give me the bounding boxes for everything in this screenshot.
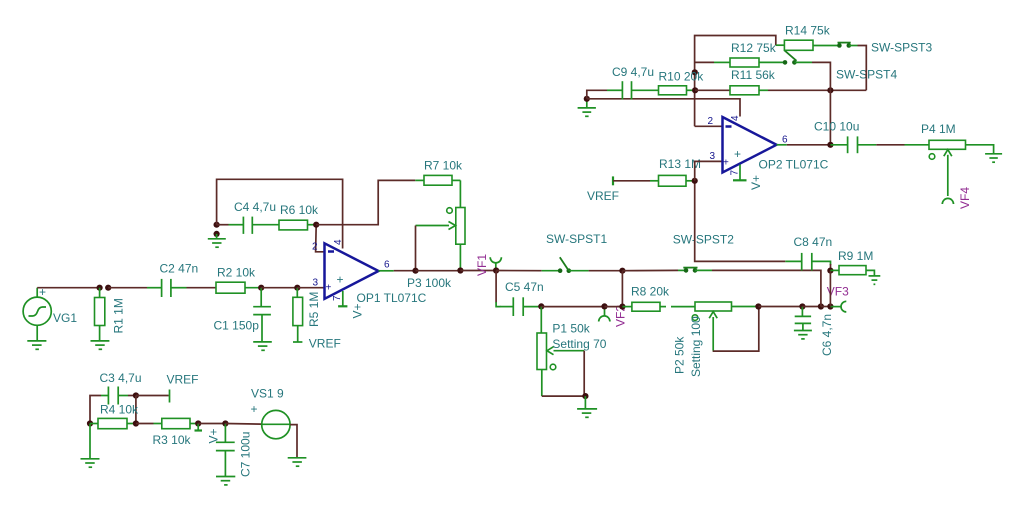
capacitor C7 — [216, 424, 235, 477]
node dot C7 top — [222, 420, 228, 426]
switch SW-SPST1 — [542, 257, 589, 273]
op-amp OP2 — [723, 117, 777, 173]
svg-text:3: 3 — [710, 151, 716, 162]
pin7 stub and V+ jack OP2 — [733, 165, 747, 181]
svg-text:C9 4,7u: C9 4,7u — [612, 65, 654, 79]
resistor R1 — [95, 288, 105, 341]
wire OP2 output to C10 node — [787, 144, 831, 146]
wire VG1 to R1 node — [37, 287, 99, 289]
voltage pin VF2 — [599, 307, 610, 322]
switch SW-SPST2 — [678, 268, 712, 273]
wire C8 down to R9 node — [830, 264, 832, 271]
wire VREF node down to R4 node — [135, 396, 137, 424]
capacitor C9 — [607, 81, 659, 99]
wire R6 node to R7 — [316, 180, 415, 224]
wire C2 to R2 — [187, 287, 217, 289]
wire C6 node to SW2-drop node — [802, 306, 821, 308]
svg-text:Setting 70: Setting 70 — [552, 337, 606, 351]
node dot R4 left — [87, 420, 93, 426]
wire R11 node down to output row — [829, 90, 831, 145]
svg-text:R9 1M: R9 1M — [838, 249, 873, 263]
node dot P3 wiper — [412, 268, 418, 274]
wire R3 node to C7 node — [198, 423, 225, 425]
wire SW3 down to R11 row — [858, 46, 867, 91]
wire P3 node to VF1 node — [460, 270, 496, 272]
node dot VF3 — [827, 303, 833, 309]
svg-text:C3 4,7u: C3 4,7u — [100, 371, 142, 385]
capacitor C10 — [830, 136, 876, 153]
svg-text:P3 100k: P3 100k — [407, 276, 452, 290]
wire node to SW2 — [622, 269, 678, 271]
generator VG1 — [23, 288, 51, 341]
wire R12 left lead — [695, 61, 714, 63]
ground below R4 left — [81, 424, 100, 468]
resistor R14 — [776, 40, 840, 50]
resistor R11 — [730, 86, 768, 95]
potentiometer P2 — [692, 302, 758, 351]
wire VF1 node to SW1 — [496, 270, 542, 272]
wire R5 node to OP1 pin3 — [297, 287, 324, 289]
wire node down to R8 row — [621, 271, 623, 307]
switch SW-SPST3 — [837, 43, 857, 48]
potentiometer P1 — [537, 306, 584, 396]
svg-text:C5 47n: C5 47n — [505, 280, 544, 294]
node dot VREF branch — [133, 392, 139, 398]
node dot P1 top — [538, 303, 544, 309]
wire SW4 to R11 row — [812, 62, 830, 90]
wire R9 node down to VF3 node — [829, 271, 831, 307]
svg-text:R14 75k: R14 75k — [785, 24, 831, 38]
wire VF1 node down to C5 — [495, 271, 497, 303]
svg-text:C6 4,7n: C6 4,7n — [820, 314, 834, 356]
svg-text:R7 10k: R7 10k — [424, 159, 463, 173]
source VS1 — [262, 410, 290, 438]
svg-text:SW-SPST3: SW-SPST3 — [871, 41, 932, 55]
node dot SW2 drop — [818, 303, 824, 309]
ground below R1 — [91, 341, 110, 349]
resistor R9 — [830, 266, 874, 276]
wire R8 to P2 lead — [671, 306, 695, 308]
potentiometer P4 — [905, 140, 994, 196]
wire to VF3 node — [821, 306, 831, 308]
resistor R12 — [714, 58, 785, 67]
ground below C4 node — [208, 234, 226, 247]
wire P2 wiper loop — [713, 307, 759, 352]
node dot R5 top — [294, 285, 300, 291]
svg-text:VG1: VG1 — [53, 311, 77, 325]
ground below VS1 — [288, 458, 307, 466]
voltage pin VF3 — [830, 301, 846, 312]
svg-text:+: + — [734, 147, 741, 161]
node dot VF2 — [601, 303, 607, 309]
node dot P3 bottom — [457, 267, 463, 273]
capacitor C6 — [795, 307, 811, 331]
wire C3 right to VREF node — [128, 395, 136, 397]
svg-text:SW-SPST1: SW-SPST1 — [546, 232, 607, 246]
wire C10 to P4 — [876, 144, 904, 146]
svg-text:+: + — [326, 283, 332, 294]
resistor R4 — [90, 418, 136, 428]
potentiometer P3 — [416, 180, 466, 270]
svg-text:P4 1M: P4 1M — [921, 122, 956, 136]
svg-text:6: 6 — [384, 260, 390, 271]
svg-text:R1 1M: R1 1M — [112, 298, 126, 333]
OP2 output lead — [777, 144, 787, 146]
pin7 stub and V+ jack OP1 — [338, 291, 347, 306]
capacitor C5 — [500, 297, 541, 316]
wire SW2 to drop — [712, 270, 821, 306]
svg-text:P2 50k: P2 50k — [673, 336, 687, 374]
svg-text:6: 6 — [782, 135, 788, 146]
wire C1 node to R5 node — [261, 287, 297, 289]
node dot feedback C4 left upper — [214, 222, 220, 228]
node dot C6 top — [799, 303, 805, 309]
svg-text:OP1 TL071C: OP1 TL071C — [357, 291, 427, 305]
node dot R13 right — [692, 178, 698, 184]
svg-text:OP2 TL071C: OP2 TL071C — [759, 158, 829, 172]
terminal VREF at R13 — [612, 176, 614, 185]
wire C4 left lead — [217, 224, 229, 226]
svg-text:VREF: VREF — [309, 337, 341, 351]
capacitor C2 — [147, 279, 187, 297]
main vertical feedback wire OP2 — [695, 36, 776, 127]
node dot P2 right — [755, 303, 761, 309]
wire C3 left down to R4 — [90, 396, 101, 424]
voltage pin VF1 — [490, 257, 501, 270]
node dot R6 right — [313, 222, 319, 228]
capacitor C4 — [229, 217, 280, 234]
node dot C1 top — [258, 285, 264, 291]
wire P2 node to C6 node — [758, 306, 802, 308]
svg-text:4: 4 — [730, 115, 741, 121]
svg-text:VS1 9: VS1 9 — [251, 387, 284, 401]
svg-text:V+: V+ — [207, 428, 221, 443]
wire P1 node to VF2 node — [541, 306, 604, 308]
resistor R6 — [279, 220, 316, 230]
svg-text:C2 47n: C2 47n — [160, 262, 199, 276]
svg-text:7: 7 — [730, 170, 741, 176]
ground below P1 — [577, 396, 597, 417]
svg-text:R12 75k: R12 75k — [731, 41, 777, 55]
svg-text:C8 47n: C8 47n — [794, 235, 833, 249]
wire R10 node to R11 — [695, 89, 730, 91]
wire R13 node up to pin3 — [695, 161, 723, 180]
switch SW-SPST4 — [783, 51, 812, 65]
node dot R9 left — [827, 268, 833, 274]
svg-text:4: 4 — [333, 239, 344, 245]
svg-text:R4 10k: R4 10k — [100, 403, 139, 417]
wire P1 wiper down — [583, 351, 585, 396]
wire pin2 OP2 — [695, 125, 723, 127]
resistor R13 — [650, 175, 695, 186]
OP1 output lead — [379, 270, 394, 272]
svg-text:2: 2 — [708, 116, 714, 127]
svg-text:R2 10k: R2 10k — [217, 266, 256, 280]
resistor R8 — [622, 302, 666, 311]
node dot P1 ground — [582, 393, 588, 399]
svg-text:VREF: VREF — [167, 373, 199, 387]
wire node to C2 — [108, 287, 147, 289]
node dot C10 left — [827, 142, 833, 148]
node dot R8 row — [619, 304, 625, 310]
node dot R1 top — [97, 285, 103, 291]
wire SW1 to SW2 node — [589, 270, 623, 272]
wire node to VREF terminal — [136, 395, 169, 397]
svg-text:C4 4,7u: C4 4,7u — [234, 200, 276, 214]
V+ jack at R3 node — [195, 424, 203, 431]
svg-text:2: 2 — [312, 242, 318, 253]
svg-text:3: 3 — [313, 278, 319, 289]
svg-text:+: + — [251, 402, 258, 416]
wire R4 node to R3 — [136, 423, 154, 425]
svg-text:R5 1M: R5 1M — [307, 292, 321, 327]
voltage pin VF4 — [942, 198, 953, 204]
svg-text:+: + — [337, 273, 344, 287]
svg-text:V+: V+ — [749, 175, 763, 190]
node dot R11 row — [827, 87, 833, 93]
svg-text:R10 20k: R10 20k — [659, 70, 705, 84]
svg-text:VREF: VREF — [587, 189, 619, 203]
terminal VREF lower-left — [169, 390, 171, 403]
node dot R3 right — [195, 420, 201, 426]
resistor R10 — [659, 86, 696, 95]
ground below R9 — [869, 276, 881, 284]
node dot VF1 — [493, 267, 499, 273]
svg-text:VF4: VF4 — [958, 187, 972, 209]
ground right of P4 — [985, 154, 1002, 162]
resistor R7 — [415, 175, 460, 185]
wire P1 bottom to ground node — [542, 395, 586, 397]
resistor R5 — [293, 288, 303, 342]
ground below C1 — [253, 342, 272, 350]
svg-text:R6 10k: R6 10k — [280, 203, 319, 217]
ground C9 — [578, 99, 596, 117]
op-amp OP1 — [325, 243, 379, 298]
node dot input row — [105, 285, 111, 291]
svg-text:7: 7 — [332, 295, 343, 301]
wire corner to C5 — [496, 302, 500, 307]
svg-text:SW-SPST2: SW-SPST2 — [673, 233, 734, 247]
VREF jack under R5 — [293, 341, 302, 343]
svg-text:C10 10u: C10 10u — [814, 120, 859, 134]
node dot C9 ground — [584, 96, 590, 102]
wire C9 hook to ground — [587, 90, 607, 99]
capacitor C3 — [101, 387, 128, 405]
svg-text:+: + — [723, 158, 729, 169]
node dot feedback C4 left lower — [214, 231, 220, 237]
ground below VG1 — [27, 341, 46, 349]
wire OP1 output to P3 wiper node — [394, 270, 416, 272]
svg-text:VF1: VF1 — [475, 254, 489, 276]
node dot R10 right — [692, 87, 698, 93]
wire P3 wiper to output row — [415, 226, 417, 271]
resistor R3 — [154, 418, 199, 428]
wire pin2 vertical OP1 — [316, 225, 325, 252]
decorative junction dot on vertical — [692, 69, 698, 75]
wire ground row to OP2 pin4 — [587, 99, 740, 117]
capacitor C1 — [253, 288, 271, 342]
svg-text:P1 50k: P1 50k — [552, 322, 590, 336]
capacitor C8 — [785, 253, 830, 271]
wire VS1 to ground — [290, 425, 297, 458]
wire VREF to R13 — [613, 180, 650, 182]
svg-text:C1 150p: C1 150p — [214, 319, 260, 333]
svg-text:V+: V+ — [351, 303, 365, 318]
svg-text:R3 10k: R3 10k — [153, 433, 192, 447]
svg-text:R8 20k: R8 20k — [631, 285, 670, 299]
wire C7 node to VS1 — [225, 423, 261, 426]
wire R11 to SW3 drop — [768, 89, 866, 91]
svg-text:R11 56k: R11 56k — [731, 68, 776, 82]
resistor R2 — [216, 282, 261, 293]
wire wiper node to P3 bottom node — [416, 270, 461, 272]
wire VF2 node to R8 — [605, 306, 623, 308]
svg-text:C7 100u: C7 100u — [239, 432, 253, 477]
ground below C7 — [216, 477, 235, 485]
svg-text:Setting 100: Setting 100 — [689, 316, 703, 377]
ground below C6 — [794, 331, 812, 339]
node dot R4 right — [133, 420, 139, 426]
wire R13 node down and over to C8 — [695, 181, 786, 262]
node dot SW1 row — [619, 268, 625, 274]
wire ground-route pin4 OP1 — [217, 179, 343, 248]
